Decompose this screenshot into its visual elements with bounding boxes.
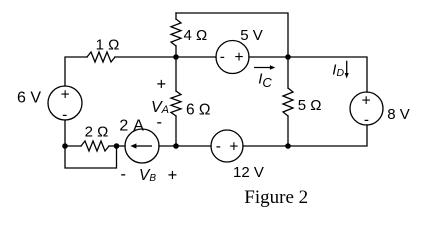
wire: node B down to 5-ohm [287, 57, 289, 88]
svg-text:+: + [362, 92, 371, 109]
svg-text:5 V: 5 V [240, 27, 263, 44]
svg-text:-: - [220, 49, 225, 66]
svg-text:+: + [229, 139, 238, 156]
svg-text:4 Ω: 4 Ω [184, 27, 208, 44]
svg-text:6 V: 6 V [17, 90, 41, 107]
current arrow I_D [345, 61, 349, 79]
resistor 1-ohm zigzag [87, 52, 115, 62]
wire: top loop from above 4-ohm to node B [176, 13, 288, 57]
wire: 4-ohm bottom to node A [175, 46, 177, 57]
wire: 8V bottom down, left to 12V right edge [243, 125, 367, 146]
node C [285, 143, 291, 149]
wire: 2-ohm to node D [109, 145, 117, 147]
svg-text:2 A: 2 A [119, 117, 144, 134]
svg-text:-: - [364, 111, 369, 128]
svg-text:-: - [216, 138, 221, 155]
svg-text:+: + [156, 75, 166, 93]
svg-text:ID: ID [332, 62, 344, 79]
resistor 4-ohm zigzag [171, 19, 181, 46]
svg-text:6 Ω: 6 Ω [186, 102, 211, 119]
svg-text:+: + [234, 49, 243, 66]
current source 2A circle [125, 129, 159, 163]
wire: left rail from 6V top up and right to 1-ohm [65, 57, 87, 86]
wire: node A down to 6-ohm [175, 57, 177, 91]
current source 2A arrow [130, 143, 152, 148]
voltage source 12V circle [211, 130, 243, 162]
svg-text:-: - [156, 114, 162, 132]
wire: 12V left edge to 2A right edge (through node F) [159, 145, 211, 147]
svg-text:IC: IC [258, 70, 272, 90]
svg-text:-: - [120, 166, 126, 184]
wire: 1-ohm to 5V source left edge (through node A) [115, 56, 216, 58]
resistor 5-ohm zigzag [283, 88, 293, 116]
node F [173, 143, 179, 149]
node B [285, 54, 291, 60]
voltage source 5V circle [216, 41, 249, 74]
voltage source 6V circle [48, 86, 82, 120]
node D [114, 143, 120, 149]
svg-text:1 Ω: 1 Ω [96, 36, 120, 53]
wire: node E to 2-ohm [66, 145, 81, 147]
wire: 6V bottom down through node E, shorting loop under 2-ohm [65, 120, 117, 168]
svg-text:-: - [62, 106, 67, 123]
svg-text:VA: VA [151, 99, 169, 116]
node E [62, 143, 68, 149]
svg-text:VB: VB [139, 167, 156, 184]
svg-text:+: + [168, 166, 178, 184]
svg-text:8 V: 8 V [387, 106, 410, 123]
wire: stub above 4-ohm [175, 13, 177, 19]
wire: 2A left edge to node D [117, 145, 126, 147]
svg-text:Figure 2: Figure 2 [244, 187, 308, 208]
current arrow I_C [254, 65, 275, 69]
svg-text:12 V: 12 V [233, 164, 264, 181]
wire: 5-ohm bottom to node C [287, 116, 289, 146]
svg-text:5 Ω: 5 Ω [298, 97, 322, 114]
node A [173, 54, 179, 60]
svg-text:+: + [61, 87, 70, 104]
voltage source 8V circle [350, 92, 383, 125]
svg-text:2 Ω: 2 Ω [85, 124, 109, 141]
wire: 5V right edge to top-right corner, down to 8V top [249, 57, 367, 92]
resistor 2-ohm zigzag [81, 141, 109, 151]
resistor 6-ohm zigzag [171, 91, 181, 116]
wire: 6-ohm bottom to node F [175, 116, 177, 146]
